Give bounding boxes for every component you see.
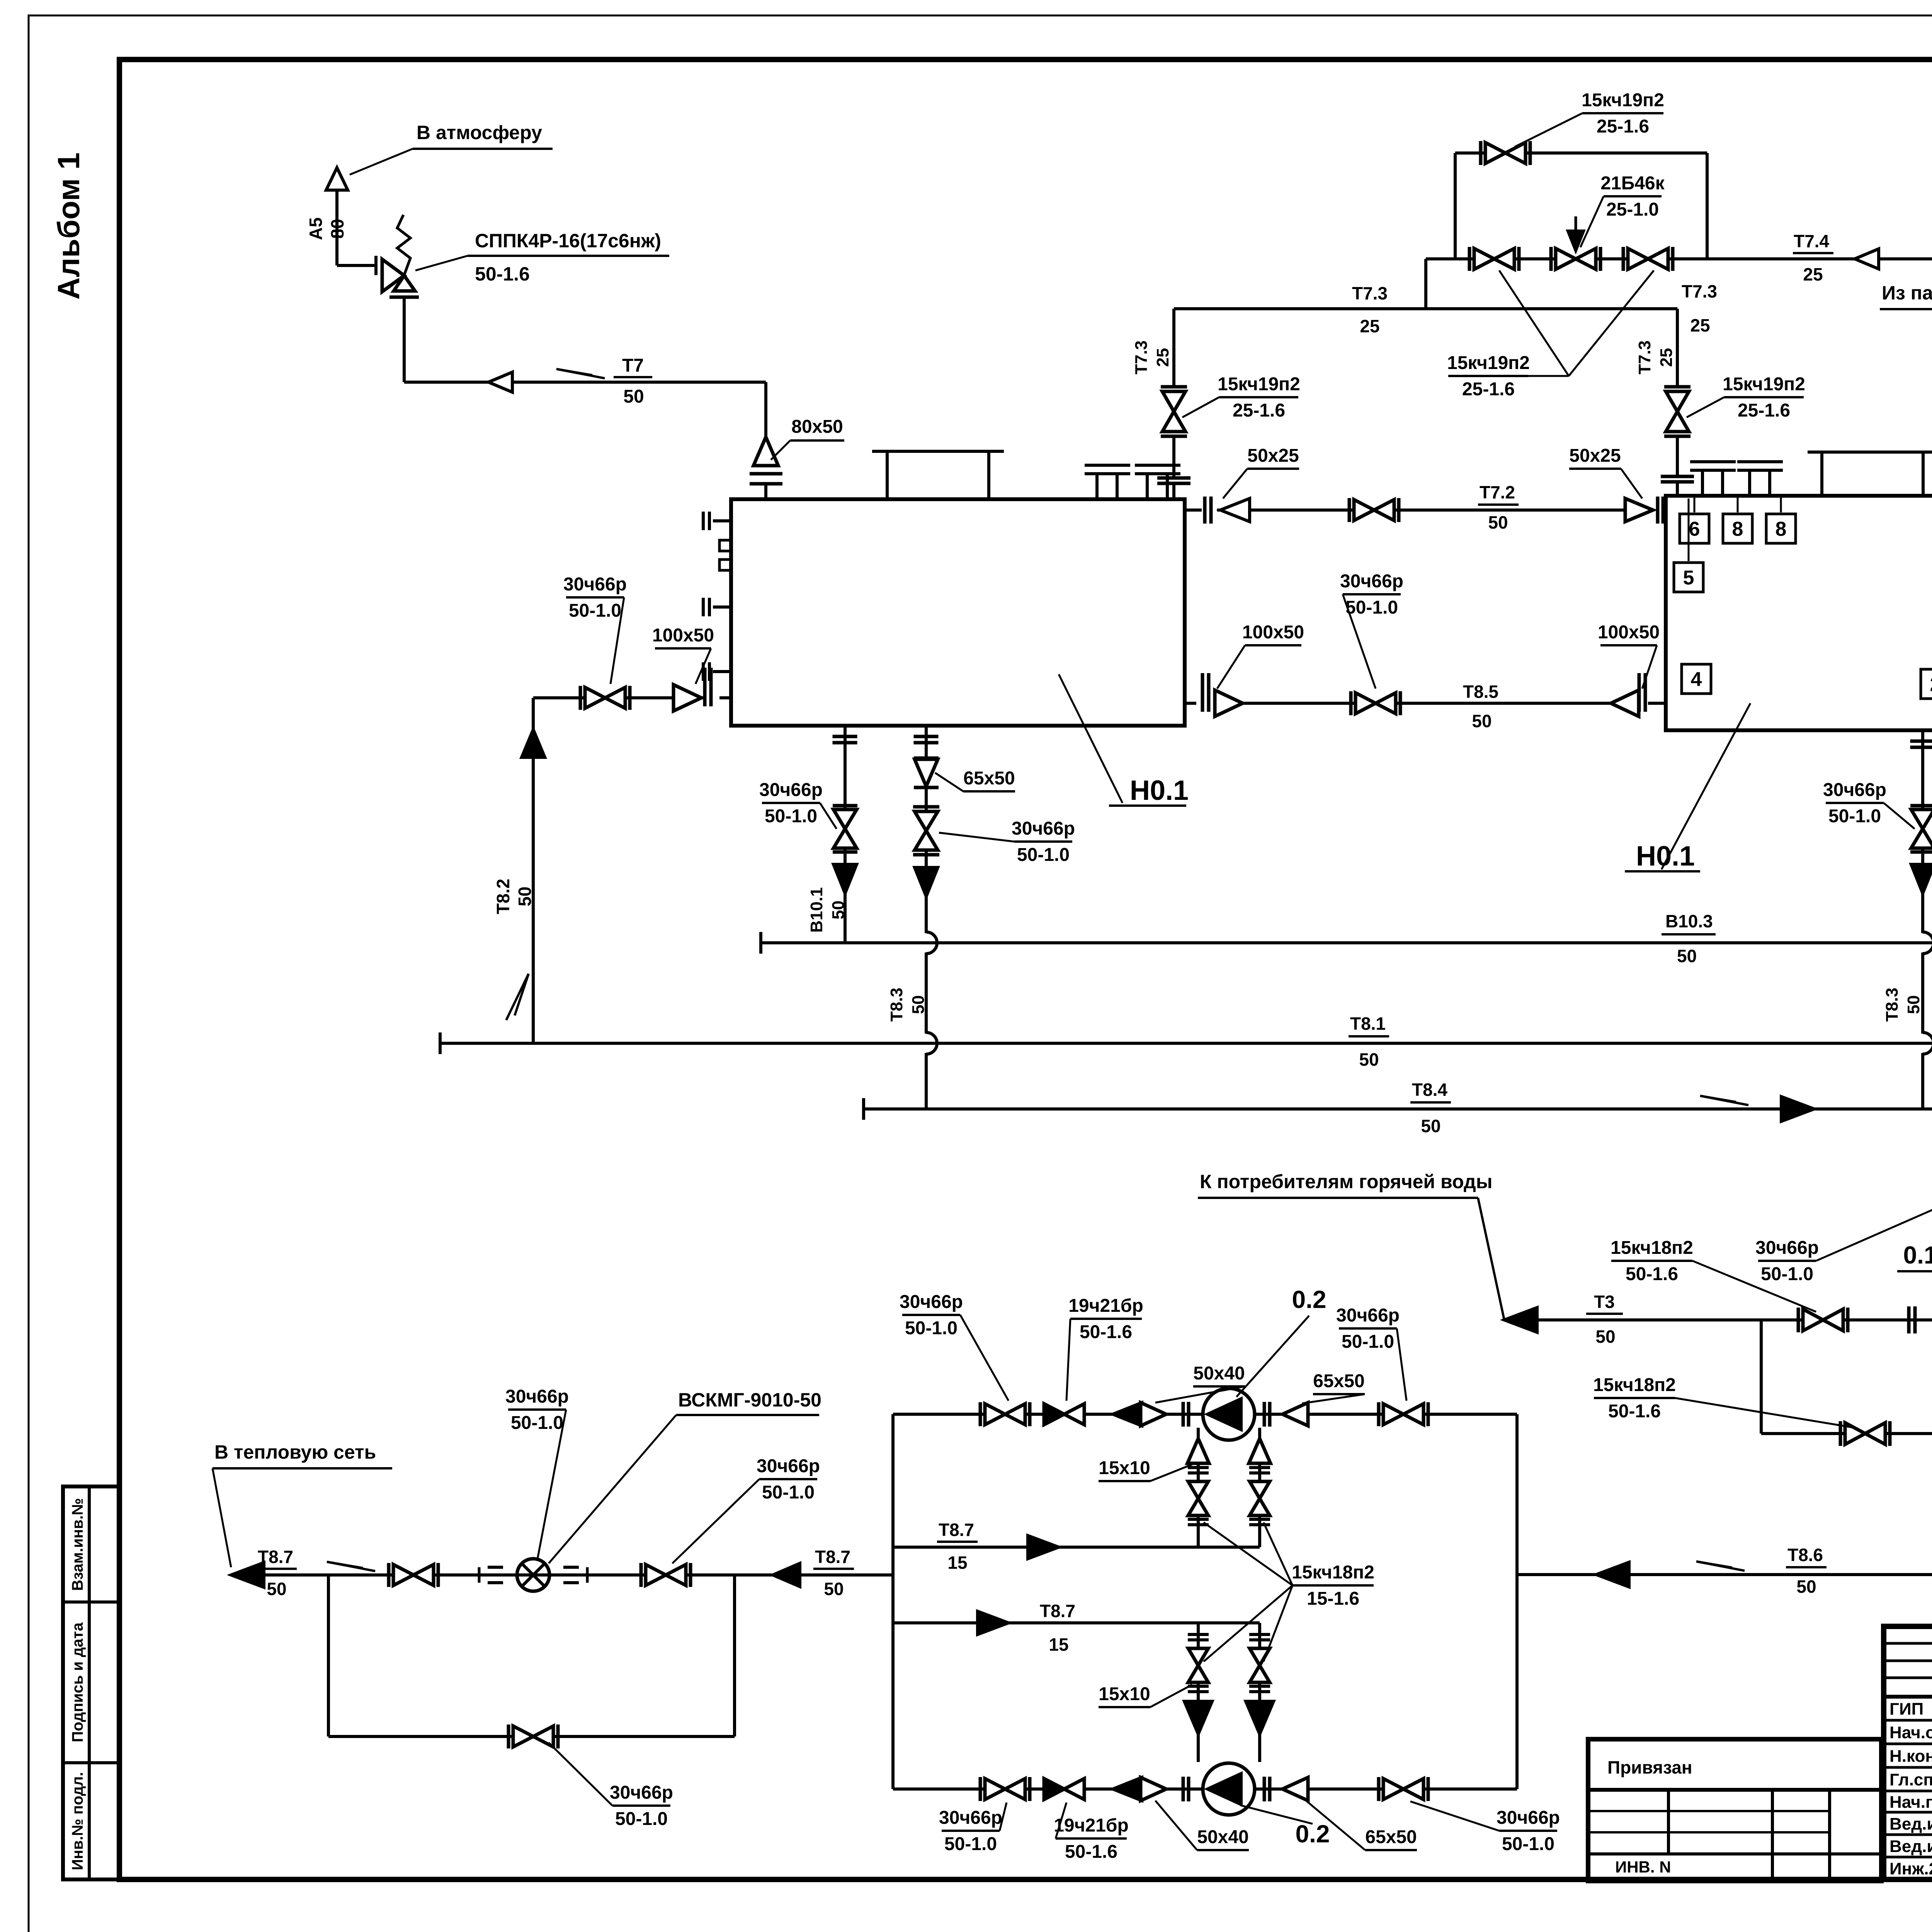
svg-text:Вед.инж.: Вед.инж. bbox=[1889, 1837, 1932, 1856]
svg-text:Т7.3: Т7.3 bbox=[1132, 340, 1151, 374]
svg-text:15кч18п2: 15кч18п2 bbox=[1593, 1375, 1676, 1395]
svg-text:50: 50 bbox=[267, 1579, 286, 1599]
svg-text:0.2: 0.2 bbox=[1296, 1820, 1330, 1848]
svg-text:25: 25 bbox=[1153, 348, 1172, 367]
svg-text:8: 8 bbox=[1732, 518, 1743, 541]
svg-text:50: 50 bbox=[1488, 512, 1508, 532]
svg-text:ВСКМГ-9010-50: ВСКМГ-9010-50 bbox=[678, 1389, 821, 1411]
svg-text:2: 2 bbox=[1930, 673, 1932, 696]
svg-text:65х50: 65х50 bbox=[1365, 1827, 1417, 1847]
svg-text:Т8.4: Т8.4 bbox=[1412, 1080, 1447, 1100]
svg-text:50: 50 bbox=[1677, 946, 1697, 966]
svg-text:50-1.0: 50-1.0 bbox=[1828, 806, 1881, 827]
svg-text:19ч21бр: 19ч21бр bbox=[1054, 1815, 1129, 1836]
svg-text:30ч66р: 30ч66р bbox=[757, 1456, 820, 1476]
svg-text:50: 50 bbox=[824, 1579, 844, 1599]
svg-text:15-1.6: 15-1.6 bbox=[1307, 1588, 1359, 1609]
svg-text:50-1.0: 50-1.0 bbox=[944, 1834, 997, 1854]
svg-text:СППК4Р-16(17с6нж): СППК4Р-16(17с6нж) bbox=[475, 230, 661, 252]
svg-text:0.1: 0.1 bbox=[1903, 1241, 1932, 1269]
svg-text:50-1.0: 50-1.0 bbox=[1761, 1264, 1813, 1284]
svg-text:50-1.6: 50-1.6 bbox=[475, 263, 530, 285]
svg-text:50: 50 bbox=[623, 386, 644, 407]
svg-text:50-1.0: 50-1.0 bbox=[1342, 1332, 1394, 1352]
svg-text:Инв.№ подл.: Инв.№ подл. bbox=[69, 1772, 86, 1870]
svg-text:Нач.гр.: Нач.гр. bbox=[1889, 1793, 1932, 1812]
svg-text:15кч19п2: 15кч19п2 bbox=[1218, 374, 1300, 395]
svg-text:Т8.1: Т8.1 bbox=[1350, 1014, 1386, 1034]
svg-text:30ч66р: 30ч66р bbox=[610, 1782, 673, 1803]
svg-text:30ч66р: 30ч66р bbox=[1012, 818, 1075, 839]
svg-text:25-1.6: 25-1.6 bbox=[1597, 116, 1649, 137]
svg-text:А5: А5 bbox=[306, 218, 326, 240]
svg-text:Подпись и дата: Подпись и дата bbox=[69, 1622, 86, 1742]
svg-text:15х10: 15х10 bbox=[1099, 1458, 1150, 1478]
svg-text:50-1.0: 50-1.0 bbox=[569, 600, 621, 621]
svg-text:15кч19п2: 15кч19п2 bbox=[1447, 353, 1530, 373]
svg-text:25-1.0: 25-1.0 bbox=[1606, 199, 1659, 220]
svg-text:Привязан: Привязан bbox=[1607, 1757, 1692, 1777]
svg-text:21Б46к: 21Б46к bbox=[1600, 173, 1665, 194]
svg-text:19ч21бр: 19ч21бр bbox=[1068, 1296, 1143, 1316]
svg-text:В тепловую сеть: В тепловую сеть bbox=[214, 1441, 376, 1463]
svg-text:В атмосферу: В атмосферу bbox=[417, 122, 542, 143]
svg-text:50-1.0: 50-1.0 bbox=[762, 1482, 815, 1503]
svg-text:Нач.отд.: Нач.отд. bbox=[1889, 1723, 1932, 1742]
svg-text:50-1.0: 50-1.0 bbox=[905, 1318, 957, 1338]
svg-text:100х50: 100х50 bbox=[652, 625, 714, 646]
svg-text:8: 8 bbox=[1776, 518, 1787, 541]
svg-text:Т8.2: Т8.2 bbox=[493, 879, 513, 914]
svg-text:50-1.0: 50-1.0 bbox=[765, 806, 817, 827]
svg-text:50-1.0: 50-1.0 bbox=[1345, 597, 1398, 618]
svg-text:5: 5 bbox=[1683, 567, 1694, 589]
svg-text:100х50: 100х50 bbox=[1598, 622, 1660, 643]
svg-text:Альбом 1: Альбом 1 bbox=[51, 153, 86, 300]
svg-text:Т7.4: Т7.4 bbox=[1794, 231, 1829, 251]
svg-text:30ч66р: 30ч66р bbox=[1823, 780, 1886, 800]
svg-text:50: 50 bbox=[1472, 711, 1492, 731]
svg-text:50х40: 50х40 bbox=[1197, 1827, 1248, 1847]
svg-text:Т8.7: Т8.7 bbox=[815, 1547, 850, 1567]
svg-text:15кч18п2: 15кч18п2 bbox=[1292, 1562, 1374, 1583]
svg-text:Из паропровода: Из паропровода bbox=[1882, 282, 1932, 304]
svg-text:30ч66р: 30ч66р bbox=[759, 780, 823, 800]
svg-text:15х10: 15х10 bbox=[1099, 1684, 1150, 1704]
svg-text:30ч66р: 30ч66р bbox=[563, 574, 627, 595]
svg-text:6: 6 bbox=[1689, 518, 1700, 541]
svg-text:Н0.1: Н0.1 bbox=[1130, 775, 1189, 806]
svg-text:80х50: 80х50 bbox=[791, 417, 843, 437]
svg-text:50-1.0: 50-1.0 bbox=[615, 1809, 668, 1829]
svg-text:Т8.7: Т8.7 bbox=[939, 1520, 974, 1540]
svg-text:30ч66р: 30ч66р bbox=[505, 1386, 569, 1407]
svg-text:50х25: 50х25 bbox=[1569, 446, 1621, 466]
svg-text:Т7.2: Т7.2 bbox=[1480, 482, 1515, 502]
svg-text:25-1.6: 25-1.6 bbox=[1233, 400, 1285, 421]
svg-text:25: 25 bbox=[1690, 315, 1710, 335]
svg-text:25-1.6: 25-1.6 bbox=[1738, 400, 1790, 421]
svg-text:Т8.6: Т8.6 bbox=[1787, 1545, 1823, 1565]
svg-text:30ч66р: 30ч66р bbox=[900, 1292, 963, 1312]
svg-text:50-1.6: 50-1.6 bbox=[1626, 1264, 1678, 1284]
svg-text:30ч66р: 30ч66р bbox=[1497, 1808, 1560, 1828]
svg-text:25: 25 bbox=[1803, 264, 1823, 284]
svg-text:Н0.1: Н0.1 bbox=[1636, 841, 1695, 872]
svg-text:15кч19п2: 15кч19п2 bbox=[1723, 374, 1805, 395]
svg-text:В10.3: В10.3 bbox=[1665, 911, 1713, 931]
svg-text:25-1.6: 25-1.6 bbox=[1462, 379, 1515, 400]
svg-text:65х50: 65х50 bbox=[1313, 1371, 1364, 1391]
svg-text:Т7.3: Т7.3 bbox=[1635, 340, 1654, 374]
svg-text:Вед.инж.: Вед.инж. bbox=[1889, 1815, 1932, 1833]
svg-text:Инж.2кт.: Инж.2кт. bbox=[1889, 1859, 1932, 1878]
svg-text:30ч66р: 30ч66р bbox=[1340, 571, 1403, 592]
svg-text:100х50: 100х50 bbox=[1242, 622, 1304, 643]
svg-text:50-1.6: 50-1.6 bbox=[1080, 1322, 1132, 1342]
svg-text:Т7.3: Т7.3 bbox=[1682, 281, 1717, 301]
svg-text:К потребителям горячей воды: К потребителям горячей воды bbox=[1200, 1171, 1492, 1192]
svg-text:4: 4 bbox=[1691, 668, 1702, 691]
svg-text:15кч19п2: 15кч19п2 bbox=[1582, 90, 1664, 111]
svg-text:Т8.7: Т8.7 bbox=[1040, 1601, 1075, 1621]
svg-text:В10.1: В10.1 bbox=[807, 887, 826, 932]
svg-text:50: 50 bbox=[1796, 1577, 1816, 1597]
svg-text:25: 25 bbox=[1360, 316, 1379, 336]
svg-text:50: 50 bbox=[515, 886, 535, 906]
svg-text:0.2: 0.2 bbox=[1292, 1286, 1327, 1313]
svg-text:50: 50 bbox=[1904, 995, 1923, 1014]
svg-text:Т3: Т3 bbox=[1594, 1292, 1615, 1312]
svg-text:15кч18п2: 15кч18п2 bbox=[1611, 1238, 1693, 1258]
svg-text:50-1.6: 50-1.6 bbox=[1608, 1401, 1661, 1422]
svg-text:50: 50 bbox=[1595, 1327, 1615, 1347]
svg-text:80: 80 bbox=[327, 219, 347, 238]
svg-text:30ч66р: 30ч66р bbox=[1336, 1305, 1400, 1326]
svg-text:50х25: 50х25 bbox=[1247, 446, 1299, 466]
svg-text:30ч66р: 30ч66р bbox=[939, 1808, 1002, 1828]
svg-text:65х50: 65х50 bbox=[963, 768, 1015, 789]
svg-text:Т8.7: Т8.7 bbox=[258, 1547, 293, 1567]
svg-text:ИНВ. N: ИНВ. N bbox=[1615, 1858, 1671, 1876]
svg-text:Взам.инв.№: Взам.инв.№ bbox=[69, 1498, 86, 1591]
svg-text:25: 25 bbox=[1657, 348, 1676, 367]
svg-text:50: 50 bbox=[829, 901, 848, 920]
svg-text:50-1.6: 50-1.6 bbox=[1065, 1842, 1117, 1862]
svg-text:Гл.спец.: Гл.спец. bbox=[1889, 1770, 1932, 1789]
svg-text:50: 50 bbox=[1359, 1049, 1379, 1070]
svg-text:Т8.3: Т8.3 bbox=[1883, 988, 1901, 1022]
svg-text:50: 50 bbox=[1421, 1116, 1440, 1136]
svg-text:Т8.5: Т8.5 bbox=[1463, 682, 1498, 702]
svg-text:15: 15 bbox=[947, 1553, 967, 1573]
svg-text:50-1.0: 50-1.0 bbox=[1017, 845, 1070, 865]
svg-text:Н.контр.: Н.контр. bbox=[1889, 1747, 1932, 1766]
svg-text:15: 15 bbox=[1049, 1634, 1068, 1655]
svg-text:50: 50 bbox=[909, 995, 928, 1014]
svg-text:30ч66р: 30ч66р bbox=[1755, 1238, 1819, 1258]
svg-text:50х40: 50х40 bbox=[1193, 1363, 1245, 1384]
svg-text:Т7.3: Т7.3 bbox=[1352, 283, 1388, 303]
svg-text:50-1.0: 50-1.0 bbox=[511, 1413, 563, 1433]
svg-text:ГИП: ГИП bbox=[1889, 1700, 1923, 1719]
svg-text:Т8.3: Т8.3 bbox=[887, 988, 906, 1022]
svg-text:50-1.0: 50-1.0 bbox=[1502, 1834, 1554, 1854]
svg-text:Т7: Т7 bbox=[622, 355, 644, 376]
